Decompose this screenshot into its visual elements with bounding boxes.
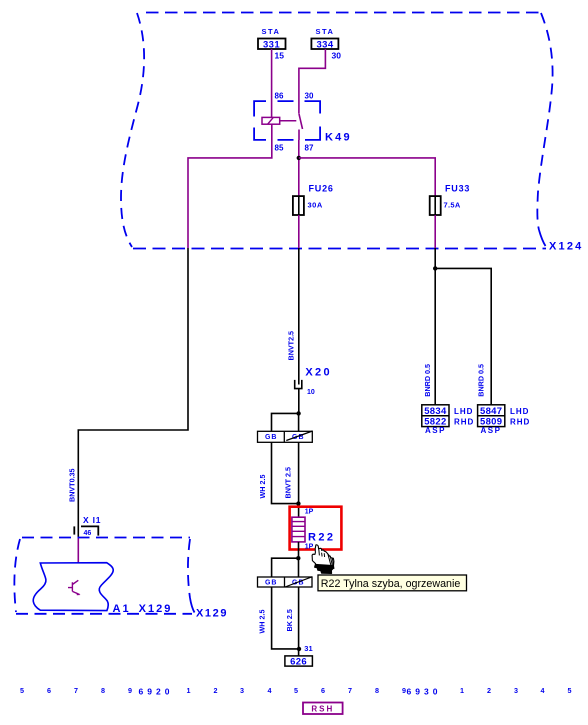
tooltip R22 xyxy=(318,575,467,591)
ruler number 3 xyxy=(240,686,244,695)
relay pin 87 label xyxy=(305,144,314,153)
relay K49 dashed box xyxy=(254,101,320,140)
module boundary X129 top edge xyxy=(22,537,190,539)
wire BNVT2.5 upper right xyxy=(298,442,300,517)
svg-text:7: 7 xyxy=(74,686,78,695)
ruler number 6 xyxy=(47,686,51,695)
label ASP left xyxy=(425,426,446,435)
svg-text:6: 6 xyxy=(321,686,325,695)
wire junction to GB right xyxy=(298,413,300,431)
module A1_X129 blob xyxy=(33,563,113,611)
relay pin 85 label xyxy=(275,144,284,153)
svg-text:7.5A: 7.5A xyxy=(444,200,461,209)
svg-text:GB: GB xyxy=(265,579,278,586)
svg-text:87: 87 xyxy=(305,144,314,153)
svg-text:FU33: FU33 xyxy=(445,184,470,194)
ruler number 1 xyxy=(187,686,191,695)
svg-text:3: 3 xyxy=(514,686,518,695)
svg-text:15: 15 xyxy=(275,51,285,61)
svg-text:46: 46 xyxy=(84,530,92,537)
svg-text:31: 31 xyxy=(304,644,312,653)
pin 46 label xyxy=(84,530,92,537)
wire label WH 2.5 upper xyxy=(258,475,267,499)
node junction right branch xyxy=(433,266,437,270)
svg-text:1: 1 xyxy=(460,686,464,695)
wire WH2.5 upper left xyxy=(272,442,299,503)
label LHD/RHD left xyxy=(454,407,474,427)
svg-text:9: 9 xyxy=(402,686,406,695)
relay K49 coil xyxy=(262,117,296,124)
svg-text:86: 86 xyxy=(275,92,284,101)
svg-text:BNVT0.35: BNVT0.35 xyxy=(68,468,77,502)
ruler number 2b xyxy=(487,686,491,695)
svg-text:334: 334 xyxy=(316,40,333,51)
svg-text:331: 331 xyxy=(263,40,280,51)
pin 15 label xyxy=(275,51,285,61)
ruler number 2 xyxy=(214,686,218,695)
svg-text:X20: X20 xyxy=(305,366,331,378)
connector 5834/5822 xyxy=(422,405,449,428)
harness boundary X124 left wavy edge xyxy=(121,13,144,247)
module boundary X129 bottom edge xyxy=(16,613,192,615)
svg-text:1: 1 xyxy=(187,686,191,695)
svg-text:10: 10 xyxy=(307,389,315,396)
fuse FU33 xyxy=(430,184,471,216)
wire branch junction to GB left xyxy=(272,413,299,431)
svg-text:RHD: RHD xyxy=(510,418,530,427)
wire relay pin 87 down xyxy=(298,130,300,197)
label LHD/RHD right xyxy=(510,407,530,427)
relay pin 30 label xyxy=(305,92,314,101)
svg-text:4: 4 xyxy=(541,686,545,695)
svg-text:6930: 6930 xyxy=(407,687,442,697)
wire STA334 to relay switch pin 30 xyxy=(299,49,326,114)
wire X20 to junction xyxy=(298,389,300,414)
svg-text:R22: R22 xyxy=(308,531,335,543)
svg-text:X129: X129 xyxy=(196,608,228,620)
svg-text:GB: GB xyxy=(265,434,278,441)
wire label BNRD 0.5 left xyxy=(423,364,432,397)
wire label BK 2.5 xyxy=(285,609,294,631)
wire WH2.5 lower left xyxy=(272,587,299,649)
svg-text:BNRD 0.5: BNRD 0.5 xyxy=(477,364,486,397)
svg-text:ASP: ASP xyxy=(481,426,502,435)
ruler number 8b xyxy=(375,686,379,695)
wire label BNRD 0.5 right xyxy=(477,364,486,397)
module boundary X129 left edge xyxy=(14,539,20,612)
label K49 xyxy=(325,132,352,144)
svg-text:X I1: X I1 xyxy=(83,515,101,525)
svg-text:R22 Tylna szyba, ogrzewanie: R22 Tylna szyba, ogrzewanie xyxy=(321,578,461,590)
cursor hand xyxy=(312,545,334,574)
heater element R22 symbol xyxy=(292,517,305,542)
splice GB box lower xyxy=(258,577,313,587)
svg-text:WH 2.5: WH 2.5 xyxy=(258,475,267,499)
node junction ground xyxy=(297,647,301,651)
svg-text:2: 2 xyxy=(214,686,218,695)
node junction above R22 xyxy=(296,501,300,505)
harness boundary X124 bottom edge xyxy=(133,248,546,250)
label A1_X129 xyxy=(113,603,173,615)
splice GB box upper xyxy=(258,431,313,442)
svg-text:STA: STA xyxy=(316,27,335,36)
ruler number 1b xyxy=(460,686,464,695)
connector X20 symbol xyxy=(295,380,302,389)
connector 5847/5809 xyxy=(478,405,505,428)
label X129 xyxy=(196,608,228,620)
wire label BNVT 2.5 xyxy=(284,467,293,499)
wire STA331 to relay coil pin 86 xyxy=(271,49,273,117)
wire label BNVT2.5 xyxy=(287,331,296,361)
ruler number 5c xyxy=(568,686,572,695)
wire label WH 2.5 lower xyxy=(258,610,267,634)
ruler number 6b xyxy=(321,686,325,695)
wire branch to connector 5847 xyxy=(435,268,491,404)
ground connector 626 xyxy=(285,656,313,668)
pin 31 label xyxy=(304,644,312,653)
svg-text:8: 8 xyxy=(101,686,105,695)
pin 10 label xyxy=(307,389,315,396)
fuse FU26 xyxy=(293,184,334,216)
wire relay pin 85 to boundary xyxy=(188,124,272,248)
ruler number 9b xyxy=(402,686,406,695)
label X124 xyxy=(549,241,584,253)
svg-text:30: 30 xyxy=(332,51,342,61)
svg-text:LHD: LHD xyxy=(454,407,473,416)
svg-text:LHD: LHD xyxy=(510,407,529,416)
svg-text:85: 85 xyxy=(275,144,284,153)
svg-text:9: 9 xyxy=(128,686,132,695)
relay pin 86 label xyxy=(275,92,284,101)
label X20 xyxy=(305,366,331,378)
svg-text:ASP: ASP xyxy=(425,426,446,435)
wire BNVT2.5 boundary to X20 xyxy=(298,248,300,385)
connector X I1 symbol xyxy=(74,526,98,535)
svg-text:BNVT2.5: BNVT2.5 xyxy=(287,331,296,361)
svg-text:5: 5 xyxy=(294,686,298,695)
wire below R22 xyxy=(298,542,300,577)
svg-text:1P: 1P xyxy=(305,544,314,551)
wire boundary to A1_X129 xyxy=(78,248,188,538)
wire label BNVT0.35 xyxy=(68,468,77,502)
connector STA 331 xyxy=(258,27,286,51)
svg-text:5834: 5834 xyxy=(424,406,447,417)
svg-text:RHD: RHD xyxy=(454,418,474,427)
node junction above GB xyxy=(296,411,300,415)
svg-text:30: 30 xyxy=(305,92,314,101)
svg-text:5847: 5847 xyxy=(480,406,502,417)
svg-text:8: 8 xyxy=(375,686,379,695)
ruler label 6930 xyxy=(407,687,442,697)
svg-text:5: 5 xyxy=(568,686,572,695)
node junction below relay xyxy=(297,156,301,160)
ruler number 4b xyxy=(541,686,545,695)
svg-text:30A: 30A xyxy=(308,200,323,209)
wire branch below R22 to GB left xyxy=(272,558,299,577)
wire FU26 to boundary xyxy=(298,215,300,248)
svg-text:WH 2.5: WH 2.5 xyxy=(258,610,267,634)
label X I1 xyxy=(83,515,101,525)
wire branch to connector 5834 xyxy=(434,248,436,405)
wire FU33 to boundary xyxy=(434,215,436,248)
label ASP right xyxy=(481,426,502,435)
label R22 xyxy=(308,531,335,543)
svg-text:RSH: RSH xyxy=(311,705,334,714)
svg-text:1P: 1P xyxy=(305,509,314,516)
ruler number 3b xyxy=(514,686,518,695)
svg-text:3: 3 xyxy=(240,686,244,695)
wire branch to FU33 xyxy=(299,158,435,196)
svg-text:K49: K49 xyxy=(325,132,352,144)
heater element R22 highlight box xyxy=(290,507,342,550)
ruler label 6920 xyxy=(139,687,174,697)
ruler number 9 xyxy=(128,686,132,695)
svg-text:4: 4 xyxy=(268,686,272,695)
harness boundary X124 top edge xyxy=(146,12,541,14)
node junction below R22 xyxy=(296,556,300,560)
svg-text:BNVT 2.5: BNVT 2.5 xyxy=(284,467,293,499)
module boundary X129 right edge xyxy=(188,539,195,613)
svg-text:626: 626 xyxy=(290,657,307,668)
ruler number 7b xyxy=(348,686,352,695)
ruler number 8 xyxy=(101,686,105,695)
internal switch symbol in A1_X129 xyxy=(68,580,81,595)
pin 30 label (top) xyxy=(332,51,342,61)
svg-text:STA: STA xyxy=(262,27,281,36)
svg-text:BK 2.5: BK 2.5 xyxy=(285,609,294,631)
pin 1P label top xyxy=(305,509,314,516)
svg-text:BNRD 0.5: BNRD 0.5 xyxy=(423,364,432,397)
ruler number 7 xyxy=(74,686,78,695)
wire BK2.5 lower right xyxy=(298,587,300,656)
svg-text:6920: 6920 xyxy=(139,687,174,697)
svg-text:6: 6 xyxy=(47,686,51,695)
ruler number 4 xyxy=(268,686,272,695)
pin 1P label bottom xyxy=(305,544,314,551)
ruler number 5 xyxy=(20,686,24,695)
wire into module (purple) xyxy=(77,538,79,563)
svg-text:FU26: FU26 xyxy=(309,184,334,194)
ruler number 5b xyxy=(294,686,298,695)
harness boundary X124 right wavy edge xyxy=(537,13,552,246)
page code box RSH xyxy=(303,703,343,715)
connector STA 334 xyxy=(311,27,338,51)
relay K49 switch contact xyxy=(299,114,303,129)
svg-text:2: 2 xyxy=(487,686,491,695)
svg-text:7: 7 xyxy=(348,686,352,695)
svg-text:A1_X129: A1_X129 xyxy=(113,603,173,615)
svg-text:X124: X124 xyxy=(549,241,584,253)
svg-text:5: 5 xyxy=(20,686,24,695)
